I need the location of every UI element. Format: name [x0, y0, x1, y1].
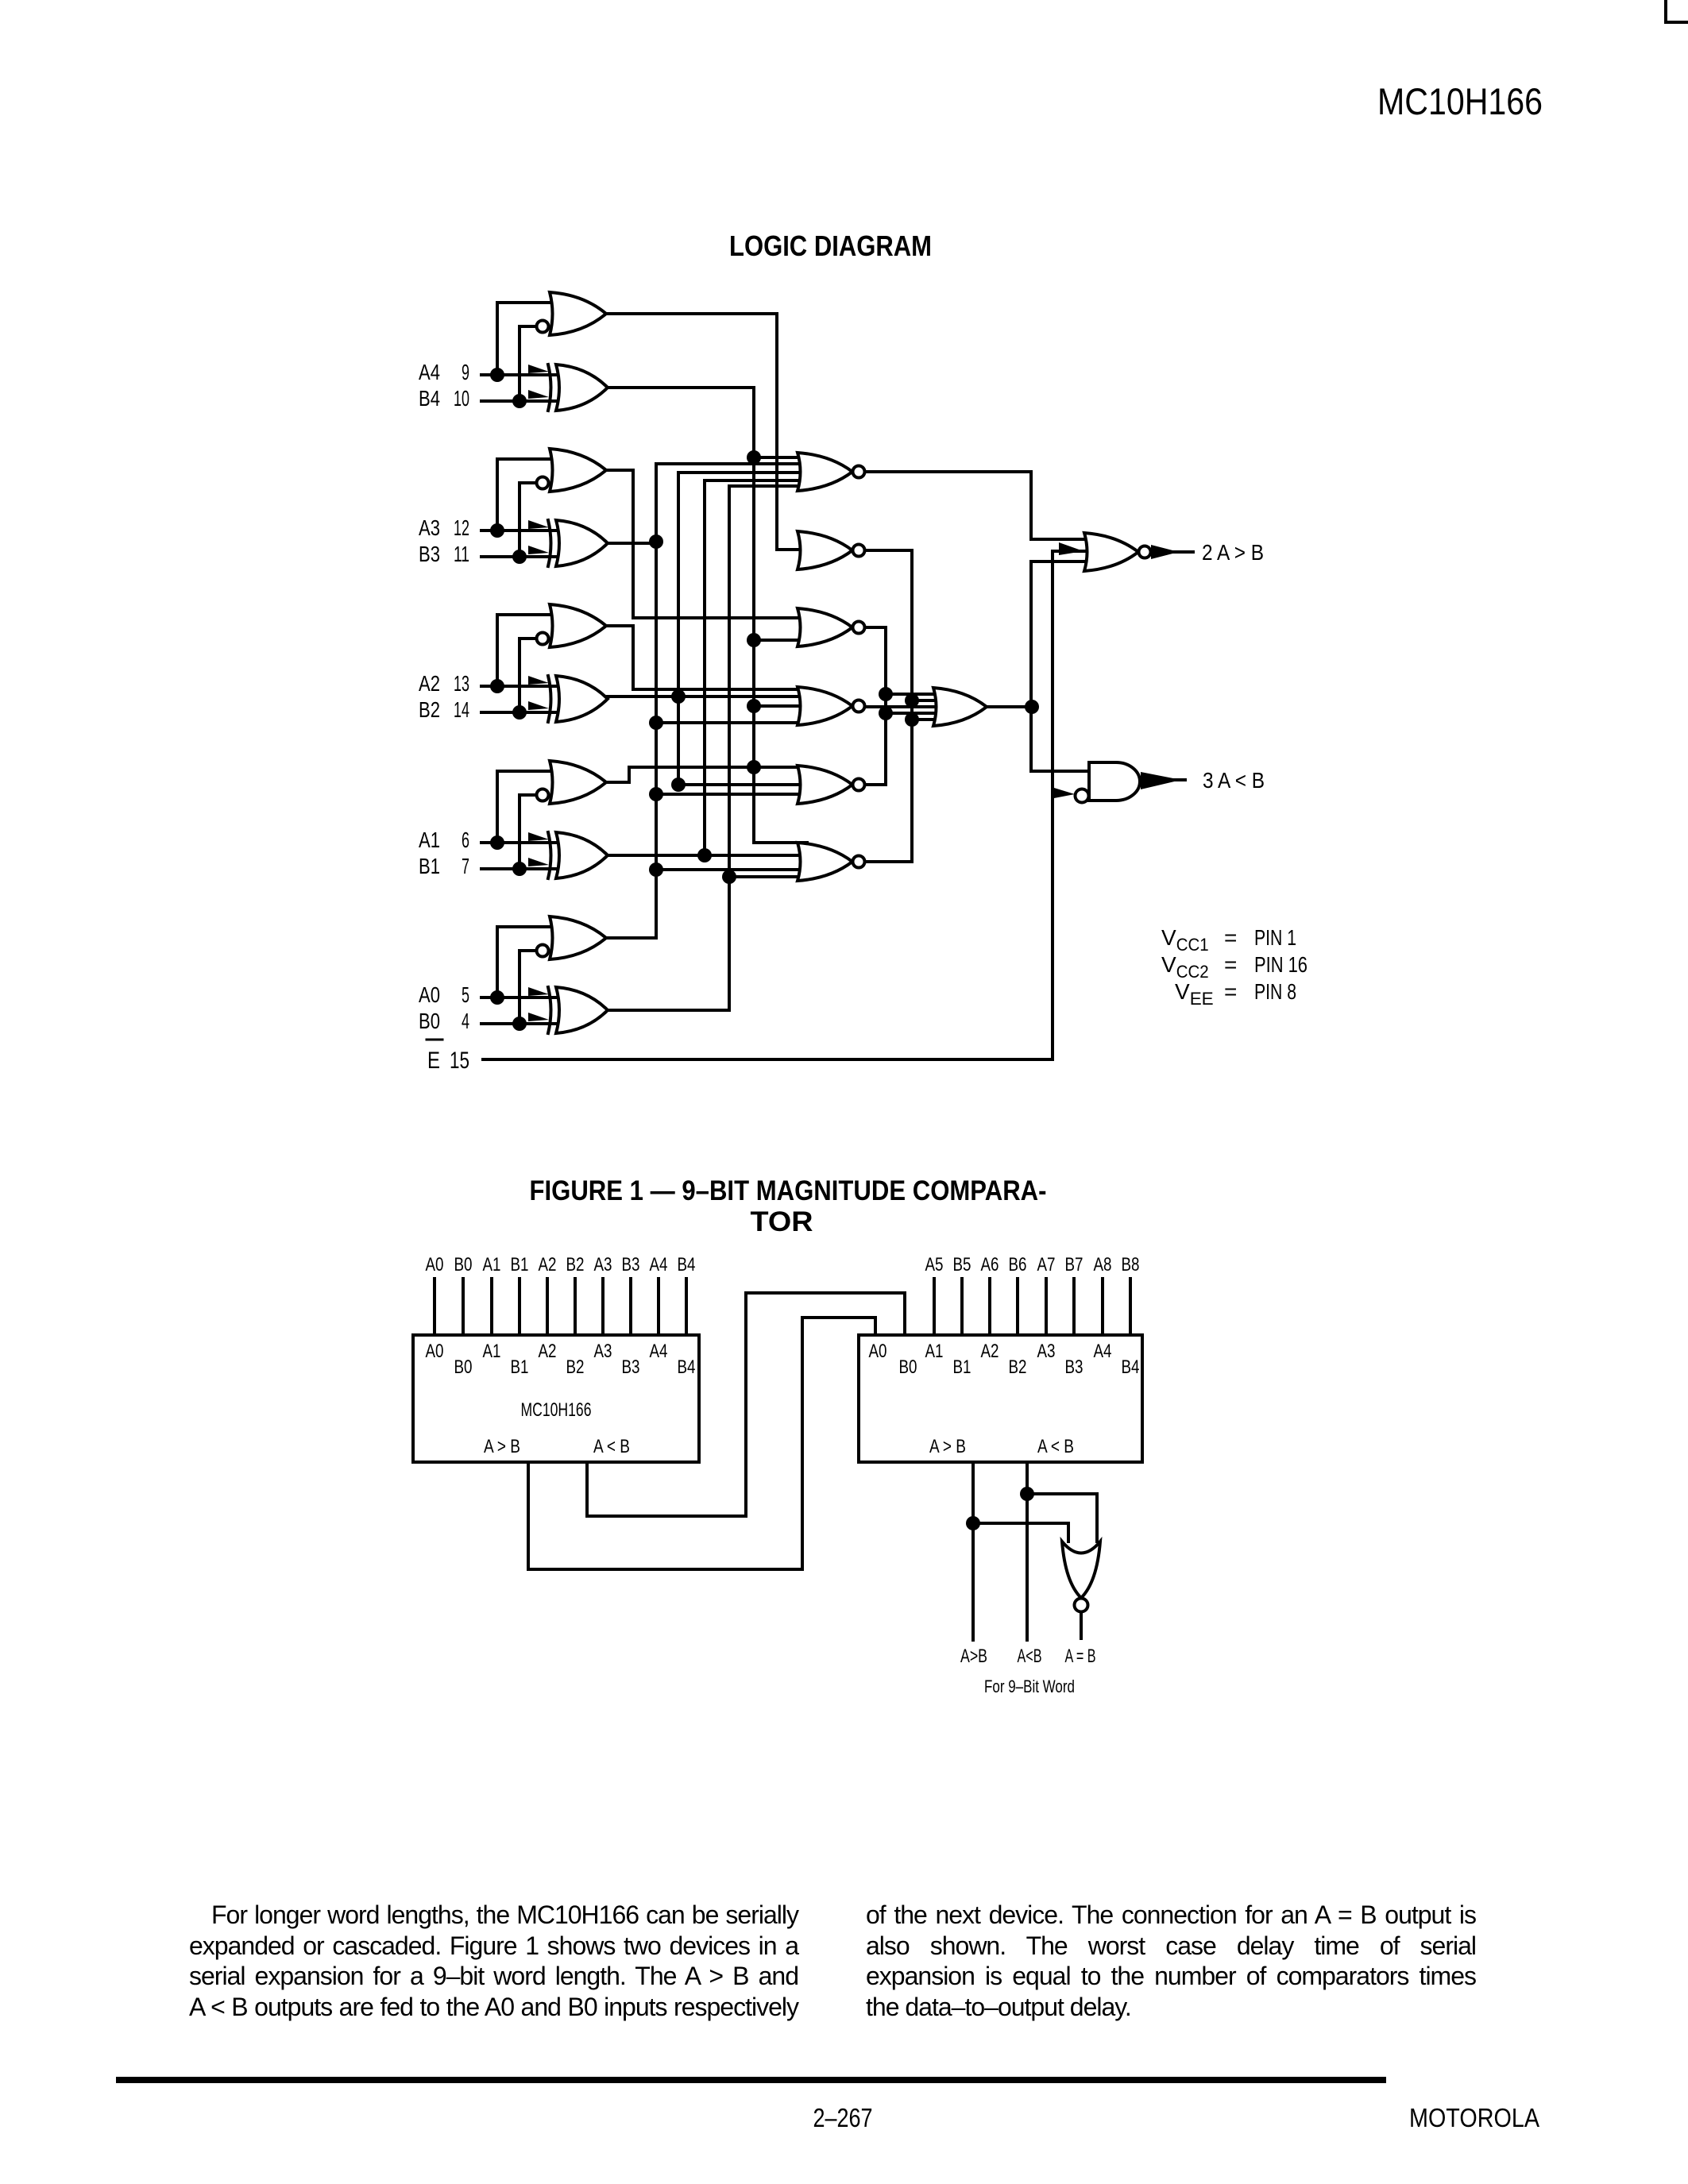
svg-text:A3: A3 — [594, 1254, 612, 1275]
node A<B branch — [1020, 1487, 1034, 1501]
wire bus-G4b to U1 input 1 — [754, 456, 807, 459]
wire X1 input stub B4 — [685, 1279, 688, 1335]
paragraph left column — [189, 1900, 798, 2022]
svg-text:A5: A5 — [925, 1254, 944, 1275]
node A3 junction — [490, 523, 504, 538]
svg-text:A4: A4 — [419, 360, 440, 384]
svg-text:LOGIC DIAGRAM: LOGIC DIAGRAM — [729, 230, 932, 262]
svg-text:B5: B5 — [953, 1254, 971, 1275]
svg-text:VCC1: VCC1 — [1161, 925, 1209, 955]
svg-text:A<B: A<B — [1018, 1646, 1042, 1667]
wire G4b output bus to NOR U6 — [608, 388, 807, 843]
svg-text:FIGURE 1 — 9–BIT MAGNITUDE COM: FIGURE 1 — 9–BIT MAGNITUDE COMPARA- — [530, 1175, 1047, 1206]
inverting bubble on B3 input of G3a — [537, 477, 549, 489]
wire X2 A<B output — [1026, 1462, 1029, 1640]
wire G1a output to U5 input 1 — [606, 767, 807, 782]
svg-text:A8: A8 — [1094, 1254, 1112, 1275]
page corner registration mark — [1664, 0, 1667, 24]
wire X1 A>B output to X2 A0 input — [528, 1318, 875, 1569]
svg-text:A1: A1 — [483, 1341, 501, 1362]
wire B2 input — [481, 711, 556, 714]
arrowhead enable into U9 — [1054, 788, 1075, 798]
svg-text:A4: A4 — [650, 1254, 668, 1275]
svg-text:B8: B8 — [1122, 1254, 1140, 1275]
svg-text:15: 15 — [450, 1048, 469, 1074]
node B2 junction — [512, 705, 527, 720]
node B0 junction — [512, 1017, 527, 1031]
or-gate G2a (A2+/B2-) — [550, 604, 606, 647]
and-gate U9 (A<B output) — [1089, 762, 1140, 801]
nor-gate U1 (equality detect) — [798, 453, 865, 491]
or-gate U7 (A<B summing) — [933, 688, 987, 726]
svg-text:MC10H166: MC10H166 — [521, 1399, 592, 1421]
svg-text:MC10H166: MC10H166 — [1377, 80, 1543, 122]
svg-text:B0: B0 — [419, 1009, 440, 1033]
wire G2a output to U4 input 1 — [606, 626, 807, 689]
svg-text:A > B: A > B — [929, 1436, 966, 1457]
wire to U7 input 1 — [886, 693, 945, 696]
wire G1b output to U6 input 2 — [608, 854, 807, 857]
nor-gate U3 — [798, 608, 865, 646]
wire X2 input stub B7 — [1072, 1279, 1076, 1335]
svg-text:11: 11 — [454, 542, 469, 566]
wire bus-826 to U5 input 3 — [656, 793, 807, 796]
svg-text:14: 14 — [454, 697, 469, 722]
svg-text:A0: A0 — [419, 982, 440, 1007]
svg-text:A4: A4 — [650, 1341, 668, 1362]
node A1 junction — [490, 835, 504, 850]
svg-text:2–267: 2–267 — [813, 2103, 873, 2132]
wire X2 input stub B5 — [960, 1279, 964, 1335]
svg-text:5: 5 — [462, 982, 469, 1007]
svg-text:A1: A1 — [925, 1341, 944, 1362]
wire G4a output to NOR U2 input — [606, 314, 807, 550]
svg-text:B3: B3 — [622, 1356, 640, 1378]
svg-text:B2: B2 — [566, 1254, 585, 1275]
wire B1 input — [481, 867, 556, 870]
wire to U7 input 4 — [886, 712, 945, 715]
svg-text:B0: B0 — [899, 1356, 917, 1378]
wire A4 input — [481, 373, 556, 376]
arrowhead enable into U8 — [1059, 542, 1083, 555]
nor-gate U10 (A=B output) — [1062, 1542, 1100, 1598]
wire A<B to U10 input — [1027, 1494, 1097, 1542]
svg-text:6: 6 — [462, 828, 469, 852]
node B4 junction — [512, 394, 527, 408]
svg-text:4: 4 — [462, 1009, 469, 1033]
wire X2 input stub A7 — [1045, 1279, 1048, 1335]
svg-text:B1: B1 — [953, 1356, 971, 1378]
svg-text:=: = — [1224, 952, 1237, 977]
svg-text:2 A > B: 2 A > B — [1202, 540, 1264, 565]
wire U9 output — [1168, 778, 1185, 781]
comparator block X2 — [859, 1335, 1142, 1462]
node bus-G4b tap to U4 — [747, 699, 761, 713]
node wired-OR tap to U7 input 5 — [905, 712, 919, 727]
wire X1 input stub A2 — [546, 1279, 549, 1335]
node U7 output junction — [1025, 700, 1039, 714]
wire B3 input — [481, 555, 556, 558]
svg-text:B3: B3 — [622, 1254, 640, 1275]
wire U4 output to U7 input 3 — [865, 705, 945, 708]
svg-text:MOTOROLA: MOTOROLA — [1409, 2103, 1539, 2132]
svg-text:A4: A4 — [1094, 1341, 1112, 1362]
wire A0 to OR gate — [497, 927, 559, 997]
nor-gate U4 — [798, 687, 865, 725]
wire bus-826 to U6 input 3 — [656, 868, 807, 871]
svg-text:For 9–Bit Word: For 9–Bit Word — [984, 1677, 1075, 1696]
svg-text:PIN 1: PIN 1 — [1254, 925, 1296, 950]
wire X1 input stub B1 — [518, 1279, 521, 1335]
svg-text:A>B: A>B — [960, 1646, 987, 1667]
wire U2/U6 outputs wired-OR — [865, 550, 912, 862]
svg-text:B2: B2 — [566, 1356, 585, 1378]
wire B0 to OR bubble — [520, 951, 537, 1024]
wire G2b output to U4 input 2 — [608, 695, 807, 698]
svg-text:B4: B4 — [678, 1254, 696, 1275]
svg-text:12: 12 — [454, 515, 469, 540]
svg-text:A1: A1 — [483, 1254, 501, 1275]
wire B3 to OR bubble — [520, 483, 537, 557]
node wired-OR tap to U7 input 2 — [905, 693, 919, 708]
wire X1 input stub A1 — [490, 1279, 493, 1335]
svg-text:A < B: A < B — [593, 1436, 630, 1457]
wire G0b output to U1 input 5 — [608, 486, 807, 1010]
xor-gate G3b (A3 xor B3) — [528, 520, 608, 566]
wire U7 output up to U8 input 3 — [1031, 561, 1084, 707]
wire to U7 input 2 — [912, 699, 945, 702]
wire U1 output to U8 input 1 — [865, 472, 1084, 539]
wire bus-854 up to U1 input 3 — [678, 473, 807, 696]
wire G0a output — [606, 936, 656, 940]
svg-text:A3: A3 — [1037, 1341, 1056, 1362]
footer rule — [116, 2077, 1386, 2083]
svg-text:B2: B2 — [1009, 1356, 1027, 1378]
svg-text:B4: B4 — [678, 1356, 696, 1378]
wire bus-G4b to U3 input 2 — [754, 639, 807, 642]
wire U8 output — [1151, 550, 1193, 554]
node G3b output joins bus-826 — [649, 534, 663, 549]
wire A4 to OR gate — [497, 303, 559, 375]
wire bus-826 (G0a output up) to U1 input 2 — [656, 464, 807, 938]
node A0 junction — [490, 990, 504, 1005]
wire bus-887 up to U1 input 4 — [705, 480, 807, 855]
svg-text:13: 13 — [454, 671, 469, 696]
svg-text:A < B: A < B — [1037, 1436, 1074, 1457]
svg-text:9: 9 — [462, 360, 469, 384]
xor-gate G4b (A4 xor B4) — [528, 365, 608, 411]
wire U10 output — [1080, 1612, 1083, 1638]
wire X2 input stub B6 — [1016, 1279, 1019, 1335]
wire X2 A>B output — [971, 1462, 975, 1640]
node wired-OR tap to U7 input 4 — [879, 706, 893, 720]
node bus-826 tap to U6 — [649, 862, 663, 877]
nor-gate U5 — [798, 766, 865, 804]
svg-text:A2: A2 — [981, 1341, 999, 1362]
svg-text:B0: B0 — [454, 1254, 473, 1275]
wire B2 to OR bubble — [520, 639, 537, 712]
svg-text:A6: A6 — [981, 1254, 999, 1275]
node A4 junction — [490, 368, 504, 382]
node bus-918 tap to U6 — [722, 870, 736, 884]
node A2 junction — [490, 679, 504, 693]
comparator block X1 (MC10H166) — [413, 1335, 699, 1462]
wire A2 to OR gate — [497, 615, 559, 686]
inverting bubble on B4 input of G4a — [537, 321, 549, 333]
svg-text:B3: B3 — [1065, 1356, 1083, 1378]
svg-text:A = B: A = B — [1065, 1646, 1096, 1667]
wire X2 input stub A6 — [988, 1279, 991, 1335]
svg-text:3 A < B: 3 A < B — [1203, 768, 1265, 793]
wire G3a output to U3 input 1 — [606, 470, 807, 618]
nor-gate U6 — [798, 843, 865, 881]
node bus-854 tap to U5 — [671, 778, 686, 792]
node B1 junction — [512, 862, 527, 876]
svg-text:A0: A0 — [426, 1341, 444, 1362]
wire X1 input stub A0 — [433, 1279, 436, 1335]
svg-text:VEE: VEE — [1175, 979, 1214, 1009]
wire bus-G4b to U4 input 3 — [754, 704, 807, 708]
svg-text:B4: B4 — [1122, 1356, 1140, 1378]
wire A>B to U10 input — [973, 1523, 1068, 1542]
svg-text:A7: A7 — [1037, 1254, 1056, 1275]
svg-text:A3: A3 — [594, 1341, 612, 1362]
xor-gate G2b (A2 xor B2) — [528, 676, 608, 722]
svg-text:A2: A2 — [539, 1254, 557, 1275]
xor-gate G0b (A0 xor B0) — [528, 987, 608, 1033]
wire enable branch to U9 — [1053, 793, 1064, 796]
svg-text:A2: A2 — [539, 1341, 557, 1362]
overbar on E — [427, 1039, 442, 1041]
inverting bubble on U9 enable input — [1076, 789, 1089, 803]
inverting bubble on B1 input of G1a — [537, 789, 549, 801]
wire A1 to OR gate — [497, 771, 559, 843]
svg-text:B7: B7 — [1065, 1254, 1083, 1275]
svg-text:7: 7 — [462, 854, 469, 878]
svg-text:A0: A0 — [426, 1254, 444, 1275]
wire B0 input — [481, 1022, 556, 1025]
wire X2 input stub A8 — [1101, 1279, 1104, 1335]
wire A0 input — [481, 996, 556, 999]
inverting bubble on U10 output — [1075, 1599, 1088, 1612]
svg-text:PIN 8: PIN 8 — [1254, 979, 1296, 1004]
nor-gate U8 (A>B output) — [1084, 533, 1151, 571]
svg-text:A3: A3 — [419, 515, 440, 540]
wire X1 input stub A3 — [601, 1279, 605, 1335]
svg-text:A > B: A > B — [484, 1436, 520, 1457]
wire U3/U5 outputs wired-OR — [865, 627, 886, 785]
svg-text:PIN 16: PIN 16 — [1254, 952, 1308, 977]
arrowhead U8 output — [1151, 545, 1179, 559]
wire X1 input stub B0 — [462, 1279, 465, 1335]
wire U7 output down to U9 input 1 — [1031, 707, 1089, 771]
wire X1 input stub B2 — [574, 1279, 577, 1335]
wire X1 A<B output to X2 B0 input — [587, 1293, 905, 1516]
node bus-826 tap to U5 — [649, 787, 663, 801]
svg-text:B3: B3 — [419, 542, 440, 566]
wire bus-854 down to U5 input 2 — [678, 696, 807, 785]
svg-text:VCC2: VCC2 — [1161, 952, 1209, 982]
svg-text:A1: A1 — [419, 828, 440, 852]
node bus-G4b crossing G1a output — [747, 760, 761, 774]
node bus-G4b tap to U1 — [747, 450, 761, 465]
wire bus-826 to U4 input 4 — [656, 721, 807, 724]
svg-text:B1: B1 — [419, 854, 440, 878]
node A>B branch — [966, 1516, 980, 1530]
or-gate G4a (A4+/B4-) — [550, 292, 606, 335]
wire X2 input stub B8 — [1129, 1279, 1132, 1335]
node G2b output joins bus-854 — [671, 689, 686, 704]
svg-text:10: 10 — [454, 386, 469, 411]
svg-text:B2: B2 — [419, 697, 440, 722]
wire X1 input stub B3 — [629, 1279, 632, 1335]
wire A3 to OR gate — [497, 459, 559, 531]
paragraph right column — [866, 1900, 1476, 2022]
wire A3 input — [481, 529, 556, 532]
node G1b output joins bus-887 — [697, 848, 712, 862]
xor-gate G1b (A1 xor B1) — [528, 832, 608, 878]
or-gate G3a (A3+/B3-) — [550, 449, 606, 492]
node B3 junction — [512, 550, 527, 564]
node bus-G4b tap to U3 — [747, 633, 761, 647]
node bus-826 tap to U4 — [649, 716, 663, 730]
svg-text:B6: B6 — [1009, 1254, 1027, 1275]
svg-text:=: = — [1224, 925, 1237, 950]
svg-text:=: = — [1224, 979, 1237, 1004]
node wired-OR tap to U7 input 1 — [879, 687, 893, 701]
wire X2 input stub A5 — [933, 1279, 936, 1335]
wire bus-918 to U6 input 4 — [729, 875, 807, 878]
nor-gate U2 — [798, 531, 865, 569]
svg-text:TOR: TOR — [751, 1206, 813, 1237]
svg-text:B1: B1 — [511, 1356, 529, 1378]
wire E-bar enable line — [483, 551, 1084, 1059]
wire U7 output — [987, 705, 1032, 708]
svg-text:A2: A2 — [419, 671, 440, 696]
wire to U7 input 5 — [912, 718, 945, 721]
wire A1 input — [481, 841, 556, 844]
wire A2 input — [481, 685, 556, 688]
or-gate G0a (A0+/B0-) — [550, 916, 606, 959]
wire G3b output to bus — [608, 542, 656, 545]
wire B4 to OR bubble — [520, 326, 537, 401]
inverting bubble on B2 input of G2a — [537, 633, 549, 645]
svg-text:B1: B1 — [511, 1254, 529, 1275]
inverting bubble on B0 input of G0a — [537, 945, 549, 957]
svg-text:B0: B0 — [454, 1356, 473, 1378]
arrowhead U9 output — [1141, 772, 1181, 789]
svg-text:B4: B4 — [419, 386, 440, 411]
wire B4 input — [481, 399, 556, 403]
or-gate G1a (A1+/B1-) — [550, 761, 606, 804]
svg-text:A0: A0 — [869, 1341, 887, 1362]
wire B1 to OR bubble — [520, 795, 537, 869]
svg-text:E: E — [427, 1048, 440, 1074]
wire X1 input stub A4 — [657, 1279, 660, 1335]
